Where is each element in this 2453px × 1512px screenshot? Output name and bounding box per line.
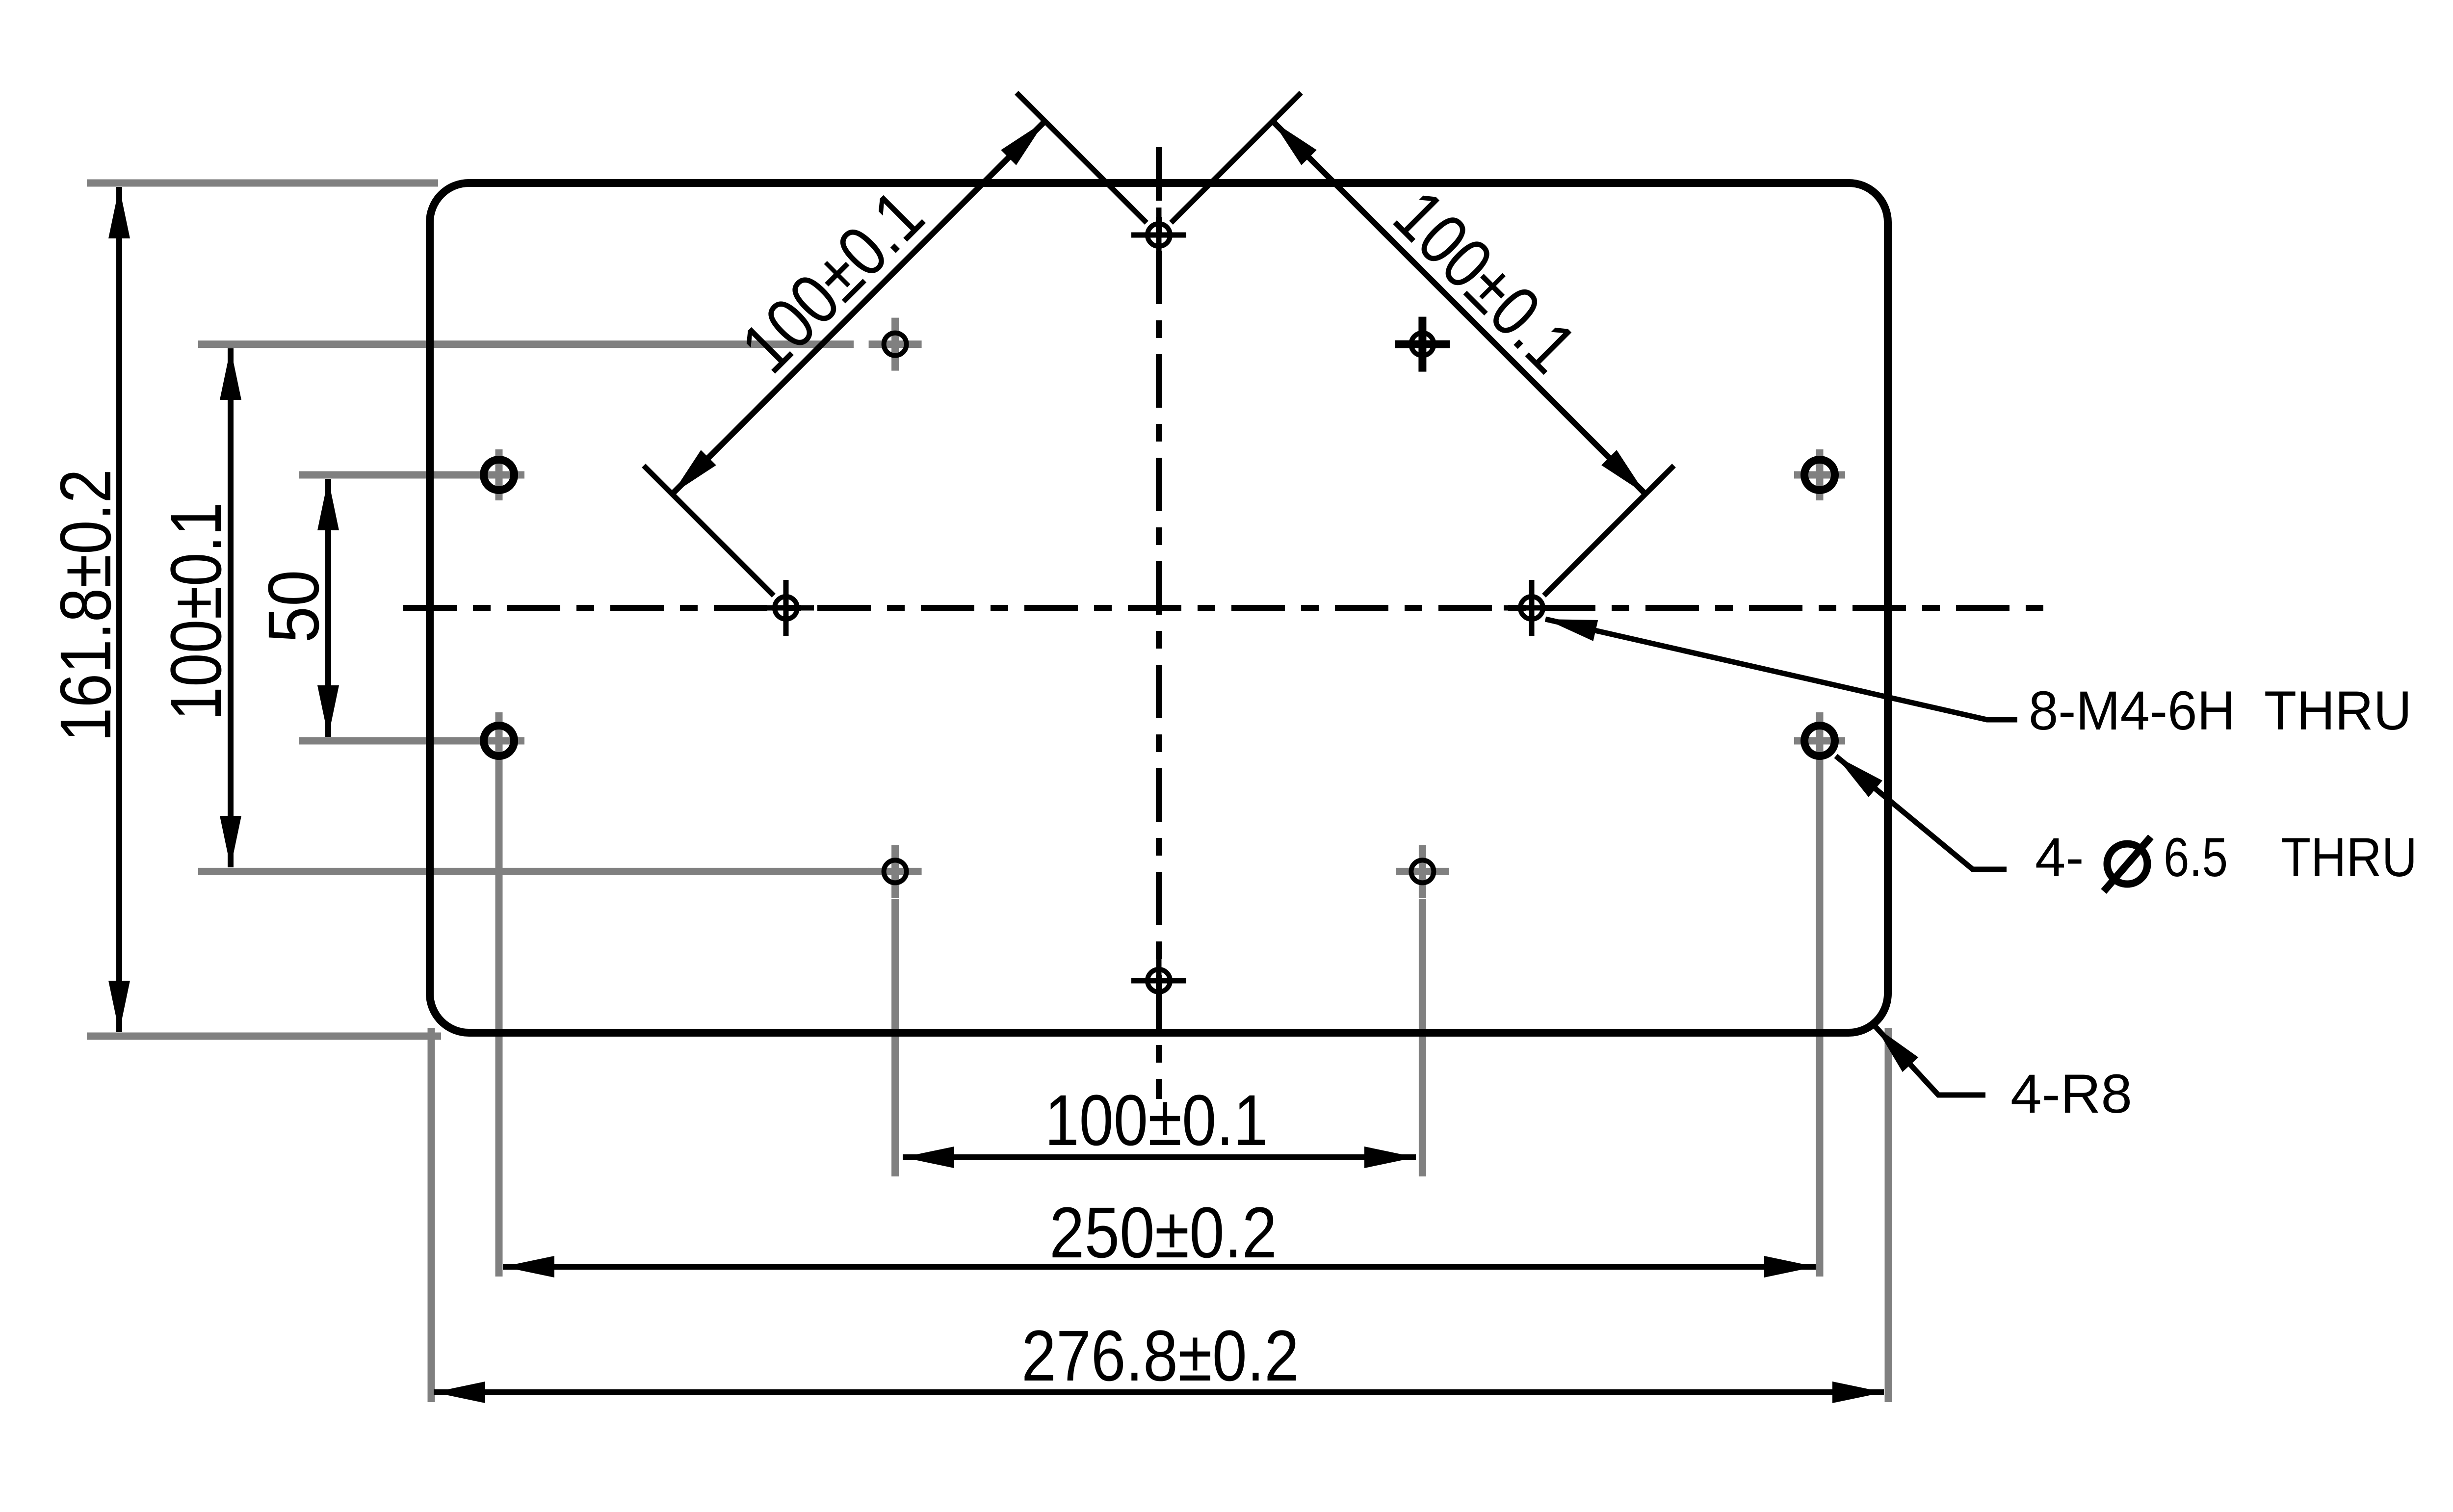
dimension line 100±0.1 (bottom) xyxy=(903,1154,1416,1160)
tapped hole M4 (NW) xyxy=(884,333,907,356)
extension line, plate top edge (161.8 dim) xyxy=(87,180,438,187)
svg-text:276.8±0.2: 276.8±0.2 xyxy=(1021,1316,1299,1396)
extension line, NW hole row (100 dim) xyxy=(198,340,854,348)
thru hole 6.5 (lower-right) xyxy=(1804,726,1835,756)
svg-text:161.8±0.2: 161.8±0.2 xyxy=(46,469,126,742)
extension line, plate right edge (276.8 dim) xyxy=(1885,1028,1892,1402)
tapped hole M4 (W) xyxy=(775,597,797,619)
thru hole 6.5 (lower-left) xyxy=(484,726,514,756)
tapped hole M4 (SE) xyxy=(1411,860,1434,883)
center mark, hole W xyxy=(758,580,814,636)
svg-text:4-R8: 4-R8 xyxy=(2010,1063,2132,1124)
svg-text:THRU: THRU xyxy=(2281,827,2417,888)
leader line, 4-6.5 THRU note (points to lower-right 6.5 hole) xyxy=(1836,756,2007,869)
tapped hole M4 (E) xyxy=(1520,597,1543,619)
center mark, hole S xyxy=(1131,953,1186,1008)
dimension line 276.8±0.2 xyxy=(434,1389,1884,1395)
extension line, N hole left (diagonal dim) xyxy=(1017,93,1147,223)
extension line, left 6.5 holes (250 dim) xyxy=(496,712,503,1277)
extension line, plate bottom edge (161.8 dim) xyxy=(87,1033,441,1040)
tapped hole M4 (SW) xyxy=(884,860,907,883)
dimension line 100±0.1 (diagonal left, W to N) xyxy=(672,121,1045,494)
svg-text:100±0.1: 100±0.1 xyxy=(1045,1080,1268,1161)
leader line, 4-R8 note (points to plate corner radius) xyxy=(1876,1027,1985,1095)
extension line, W hole (diagonal dim) xyxy=(644,466,774,596)
extension line, E hole (diagonal dim) xyxy=(1544,466,1674,596)
svg-text:4-: 4- xyxy=(2035,827,2084,888)
center mark, hole E xyxy=(1504,580,1560,636)
extension line, N hole right (diagonal dim) xyxy=(1171,93,1301,223)
leader line, 8-M4-6H THRU note (points to E hole) xyxy=(1545,619,2017,720)
tapped hole M4 (S) xyxy=(1148,969,1170,992)
center mark, hole NE (bold) xyxy=(1395,317,1450,372)
center mark, lower-right 6.5 hole (gray) xyxy=(1794,715,1845,766)
extension line, SE hole (bottom 100 dim) xyxy=(1419,899,1426,1176)
extension line, plate left edge (276.8 dim) xyxy=(428,1028,435,1402)
svg-text:8-M4-6H THRU: 8-M4-6H THRU xyxy=(2029,680,2412,741)
extension line, SW hole row (100 dim) xyxy=(198,868,869,875)
thru hole 6.5 (upper-left) xyxy=(484,460,514,490)
center mark, hole SE (gray) xyxy=(1396,845,1449,898)
dimension line 50 (vertical) xyxy=(325,479,331,737)
vertical centerline (chain line) xyxy=(1156,147,1162,1099)
center mark, hole NW (gray) xyxy=(869,318,922,371)
center mark, hole N xyxy=(1131,208,1186,262)
tapped hole M4 (N) xyxy=(1148,224,1170,246)
horizontal centerline (chain line) xyxy=(403,605,2051,611)
center mark, upper-right 6.5 hole (gray) xyxy=(1794,449,1845,500)
extension line, right 6.5 holes (250 dim) xyxy=(1816,712,1824,1277)
thru hole 6.5 (upper-right) xyxy=(1804,460,1835,490)
svg-text:100±0.1: 100±0.1 xyxy=(156,502,236,721)
plate outline, rounded rectangle 276.8 x 161.8 xyxy=(430,183,1888,1033)
svg-text:250±0.2: 250±0.2 xyxy=(1049,1193,1277,1273)
tapped hole M4 (NE) xyxy=(1411,333,1434,356)
dimension line 100±0.1 (left vertical) xyxy=(228,348,234,867)
svg-text:6.5: 6.5 xyxy=(2164,827,2228,888)
extension line, upper 6.5 hole row (50 dim) xyxy=(299,471,524,479)
center mark, hole SW (gray) xyxy=(869,845,922,898)
extension line, SW hole (bottom 100 dim) xyxy=(891,899,899,1176)
dimension line 250±0.2 xyxy=(503,1264,1816,1270)
dimension line 161.8±0.2 (vertical) xyxy=(116,187,122,1032)
center mark, lower-left 6.5 hole (gray) xyxy=(473,715,524,766)
dimension line 100±0.1 (diagonal right, N to E) xyxy=(1273,121,1645,494)
center mark, upper-left 6.5 hole (gray) xyxy=(473,449,524,500)
svg-text:50: 50 xyxy=(254,570,334,643)
extension line, lower 6.5 hole row (50 dim) xyxy=(299,737,524,745)
